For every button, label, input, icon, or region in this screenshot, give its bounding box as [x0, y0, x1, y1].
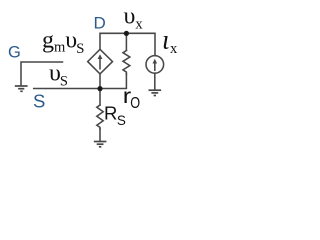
- svg-text:ιx: ιx: [162, 25, 178, 58]
- ground gate: [15, 86, 28, 91]
- current source ix circle: [146, 56, 164, 74]
- label ro: [123, 84, 132, 108]
- node source junction dot: [97, 86, 102, 91]
- resistor ro: [123, 51, 130, 75]
- wire drain top: [100, 33, 155, 55]
- wire ro top: [125, 33, 127, 50]
- dep current source gmvs diamond: [88, 49, 113, 74]
- ground ix: [149, 90, 162, 95]
- svg-text:D: D: [94, 14, 106, 33]
- svg-text:S: S: [33, 91, 45, 112]
- svg-text:gmυS: gmυS: [42, 28, 85, 57]
- ground Rs: [94, 142, 107, 147]
- ix arrow: [154, 61, 156, 70]
- wire Rs bottom: [99, 129, 101, 141]
- svg-text:O: O: [130, 95, 140, 112]
- svg-text:G: G: [8, 44, 21, 62]
- wire gate horizontal: [21, 62, 63, 85]
- wire source horizontal: [34, 74, 127, 89]
- wire ix bottom: [154, 73, 156, 89]
- svg-text:υS: υS: [49, 61, 68, 90]
- wire dep source bottom: [99, 74, 101, 89]
- node vx junction dot: [124, 31, 129, 36]
- wire Rs top: [99, 89, 101, 106]
- resistor Rs: [97, 105, 103, 129]
- dep source arrow: [99, 57, 101, 69]
- svg-text:υx: υx: [124, 4, 144, 33]
